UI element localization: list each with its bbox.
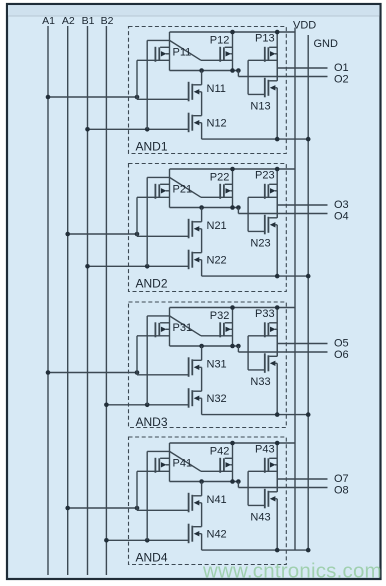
svg-text:N43: N43 (250, 512, 270, 524)
wire inverter output vertical AND2 (276, 191, 278, 218)
junction P12 source on node (230, 68, 235, 73)
wire P43 gate/source lead (248, 470, 277, 472)
transistor N33 (NMOS) (265, 353, 277, 373)
svg-text:O7: O7 (334, 473, 349, 485)
junction ground feed on GND rail (306, 412, 311, 417)
wire P42 gate/source lead (201, 470, 233, 472)
wire N31 source to N32 drain (201, 367, 203, 391)
AND4 dashed box (129, 437, 287, 565)
wire inverter gate vertical AND1 (247, 60, 249, 94)
wire inverter output vertical AND1 (276, 54, 278, 81)
wire N21 drain vertical (201, 208, 203, 222)
watermark www.cntronics.com (202, 560, 382, 583)
transistor P42 (PMOS) (220, 458, 232, 473)
wire node jog down (237, 208, 239, 214)
AND1 dashed box (129, 27, 287, 154)
transistor P11 (PMOS) (155, 47, 169, 62)
svg-text:P11: P11 (173, 46, 192, 58)
junction A tap on input line (65, 506, 70, 511)
wire N42 source to ground (201, 534, 203, 550)
junction P12 drain on VDD feed (230, 30, 235, 35)
svg-text:B1: B1 (82, 15, 95, 27)
transistor N41 (NMOS) (189, 493, 202, 513)
junction B tap on input line (85, 127, 90, 132)
wire N31 gate lead (137, 374, 189, 376)
svg-text:P12: P12 (210, 34, 230, 46)
VDD rail (294, 28, 296, 551)
wire B diagonal to P42 gate (170, 451, 202, 471)
wire VDD feed AND3 (170, 307, 296, 309)
wire node jog down (237, 482, 239, 488)
svg-text:AND2: AND2 (136, 277, 168, 291)
wire VDD feed AND4 (170, 442, 296, 444)
junction P42 source on node (230, 479, 235, 484)
svg-text:P13: P13 (255, 32, 275, 44)
wire N12 source to ground (201, 123, 203, 139)
wire P22 drain/source vertical (232, 169, 234, 208)
junction B tap on riser (145, 264, 150, 269)
junction B tap on riser (145, 127, 150, 132)
transistor P32 (PMOS) (220, 322, 232, 337)
svg-text:N42: N42 (207, 528, 227, 540)
junction N41 drain on node (199, 479, 204, 484)
transistor P41 (PMOS) (155, 458, 169, 473)
svg-text:O1: O1 (334, 62, 349, 74)
wire VDD feed AND2 (170, 168, 296, 170)
svg-text:AND1: AND1 (136, 140, 168, 154)
junction node corner (236, 68, 241, 73)
svg-text:P21: P21 (173, 183, 193, 195)
wire P23 gate/source lead (248, 196, 277, 198)
wire input A tap AND2 (68, 233, 137, 235)
wire inverter gate vertical AND4 (247, 471, 249, 505)
header rule (8, 15, 380, 17)
wire P32 gate/source lead (201, 335, 233, 337)
svg-text:VDD: VDD (293, 20, 316, 32)
svg-text:N22: N22 (207, 254, 227, 266)
wire N11 drain vertical (201, 71, 203, 85)
svg-text:N32: N32 (207, 393, 227, 405)
wire B riser AND1 (146, 40, 148, 129)
transistor P12 (PMOS) (220, 47, 232, 62)
junction A tap on riser (135, 506, 140, 511)
wire input A tap AND3 (48, 372, 137, 374)
wire N11 gate lead (137, 98, 189, 100)
wire N13 gate lead (248, 93, 265, 95)
transistor P13 (PMOS) (265, 47, 277, 62)
junction P43 drain on VDD feed (275, 441, 280, 446)
junction node corner (236, 479, 241, 484)
wire NAND node AND2 (170, 207, 239, 209)
svg-text:GND: GND (314, 38, 339, 50)
svg-text:O4: O4 (334, 211, 349, 223)
wire B top run AND3 (147, 315, 169, 317)
wire input A tap AND4 (68, 507, 137, 509)
GND rail (307, 35, 309, 550)
svg-text:AND4: AND4 (136, 551, 168, 565)
wire N33 gate lead (248, 369, 265, 371)
wire P13 gate/source lead (248, 59, 277, 61)
junction A tap on input line (46, 370, 51, 375)
input line B2 (105, 26, 107, 575)
input line A1 (47, 26, 49, 575)
junction ground feed on GND rail (306, 137, 311, 142)
wire inverter output vertical AND3 (276, 329, 278, 356)
wire node jog down (237, 346, 239, 352)
wire P41 drain/source vertical (169, 443, 171, 482)
svg-text:AND3: AND3 (136, 415, 168, 429)
wire P21 gate/source lead (137, 196, 170, 198)
svg-text:N33: N33 (250, 376, 270, 388)
wire NAND node AND3 (170, 345, 239, 347)
junction B tap on riser (145, 403, 150, 408)
transistor P22 (PMOS) (220, 184, 232, 199)
junction A tap on input line (65, 232, 70, 237)
wire O5 line (AND output) (277, 343, 327, 345)
junction B tap on input line (104, 403, 109, 408)
wire P11 drain/source vertical (169, 32, 171, 71)
wire N23 gate lead (248, 230, 265, 232)
svg-text:N23: N23 (250, 238, 270, 250)
AND2 dashed box (129, 164, 287, 292)
junction ground feed on GND rail (306, 548, 311, 553)
wire P32 drain/source vertical (232, 308, 234, 347)
wire P22 gate/source lead (201, 196, 233, 198)
wire A riser AND1 (136, 60, 138, 99)
transistor N32 (NMOS) (189, 388, 202, 408)
wire B diagonal to P22 gate (170, 177, 202, 197)
wire N22 source to ground (201, 260, 203, 276)
svg-text:www.cntronics.com: www.cntronics.com (202, 560, 382, 583)
junction N33 source on ground feed (275, 412, 280, 417)
wire B top run AND2 (147, 176, 169, 178)
wire N43 gate lead (248, 504, 265, 506)
wire A riser AND4 (136, 471, 138, 510)
wire P13 drain vertical (276, 32, 278, 81)
wire O7 line (AND output) (277, 478, 327, 480)
wire N43 source to ground (276, 499, 278, 550)
transistor P31 (PMOS) (155, 322, 169, 337)
wire P12 gate/source lead (201, 59, 233, 61)
junction N13 source on ground feed (275, 137, 280, 142)
wire N21 gate lead (137, 235, 189, 237)
junction P33 drain on VDD feed (275, 305, 280, 310)
input line A2 (67, 26, 69, 575)
transistor N12 (NMOS) (189, 113, 202, 133)
transistor P43 (PMOS) (265, 458, 277, 473)
wire N11 source to N12 drain (201, 92, 203, 116)
panel header band (8, 5, 380, 16)
wire NAND node AND4 (170, 481, 239, 483)
svg-text:O3: O3 (334, 199, 349, 211)
svg-text:N21: N21 (207, 220, 227, 232)
wire inverter gate vertical AND3 (247, 336, 249, 370)
wire P12 drain/source vertical (232, 32, 234, 71)
wire N41 gate lead (137, 509, 189, 511)
svg-text:O8: O8 (334, 485, 349, 497)
wire P33 drain vertical (276, 308, 278, 357)
junction B tap on riser (145, 538, 150, 543)
transistor N21 (NMOS) (189, 219, 202, 239)
wire P33 gate/source lead (248, 335, 277, 337)
transistor P21 (PMOS) (155, 184, 169, 199)
junction P23 drain on VDD feed (275, 167, 280, 172)
svg-text:N13: N13 (250, 101, 270, 113)
transistor N22 (NMOS) (189, 250, 202, 270)
wire ground feed AND3 (202, 414, 309, 416)
transistor N11 (NMOS) (189, 82, 202, 102)
wire input A tap AND1 (48, 96, 137, 98)
wire N41 source to N42 drain (201, 503, 203, 527)
svg-text:A1: A1 (42, 15, 55, 27)
wire NAND node AND1 (170, 70, 239, 72)
transistor N31 (NMOS) (189, 357, 202, 377)
wire input B tap / N12 gate lead (88, 128, 189, 130)
wire A riser AND3 (136, 336, 138, 375)
wire P11 gate/source lead (137, 59, 170, 61)
transistor P33 (PMOS) (265, 322, 277, 337)
svg-text:A2: A2 (62, 15, 75, 27)
wire N21 source to N22 drain (201, 229, 203, 253)
wire inverter output vertical AND4 (276, 465, 278, 492)
junction N23 source on ground feed (275, 274, 280, 279)
junction N43 source on ground feed (275, 548, 280, 553)
wire N31 drain vertical (201, 346, 203, 360)
wire N32 source to ground (201, 398, 203, 414)
junction A tap on input line (46, 95, 51, 100)
wire ground feed AND2 (202, 275, 309, 277)
wire P31 gate/source lead (137, 335, 170, 337)
AND3 dashed box (129, 302, 287, 428)
svg-text:O6: O6 (334, 349, 349, 361)
junction ground feed on GND rail (306, 274, 311, 279)
wire VDD feed AND1 (170, 31, 296, 33)
input line B1 (87, 26, 89, 575)
svg-text:B2: B2 (101, 15, 114, 27)
wire P23 drain vertical (276, 169, 278, 218)
wire input B tap / N42 gate lead (106, 539, 188, 541)
wire P42 drain/source vertical (232, 443, 234, 482)
wire O3 line (AND output) (277, 204, 327, 206)
svg-text:P33: P33 (255, 308, 275, 320)
wire B riser AND4 (146, 451, 148, 540)
wire A riser AND2 (136, 197, 138, 236)
wire N13 source to ground (276, 88, 278, 139)
wire inverter gate vertical AND2 (247, 197, 249, 231)
junction node corner (236, 205, 241, 210)
junction B tap on input line (104, 538, 109, 543)
svg-text:P41: P41 (173, 457, 193, 469)
svg-text:N11: N11 (207, 83, 226, 95)
junction B tap on input line (85, 264, 90, 269)
junction N31 drain on node (199, 344, 204, 349)
junction N11 drain on node (199, 68, 204, 73)
svg-text:N31: N31 (207, 359, 227, 371)
svg-text:P32: P32 (210, 310, 230, 322)
transistor N13 (NMOS) (265, 78, 277, 98)
wire P41 gate/source lead (137, 470, 170, 472)
wire O2 line (NAND output) (238, 76, 327, 78)
wire B diagonal to P12 gate (170, 40, 202, 60)
transistor N23 (NMOS) (265, 215, 277, 235)
wire node jog down (237, 71, 239, 77)
wire input B tap / N32 gate lead (106, 404, 188, 406)
transistor N42 (NMOS) (189, 524, 202, 544)
wire B top run AND4 (147, 450, 169, 452)
wire O6 line (NAND output) (238, 351, 327, 353)
wire input B tap / N22 gate lead (88, 265, 189, 267)
svg-text:P22: P22 (210, 171, 230, 183)
wire B riser AND2 (146, 177, 148, 266)
junction P32 source on node (230, 344, 235, 349)
wire N41 drain vertical (201, 482, 203, 496)
wire P31 drain/source vertical (169, 308, 171, 347)
junction P22 drain on VDD feed (230, 167, 235, 172)
junction P42 drain on VDD feed (230, 441, 235, 446)
junction node corner (236, 344, 241, 349)
junction P22 source on node (230, 205, 235, 210)
wire ground feed AND4 (202, 549, 309, 551)
wire B top run AND1 (147, 39, 169, 41)
transistor N43 (NMOS) (265, 489, 277, 509)
svg-text:P23: P23 (255, 169, 275, 181)
junction N21 drain on node (199, 205, 204, 210)
junction P13 drain on VDD feed (275, 30, 280, 35)
wire N33 source to ground (276, 363, 278, 414)
svg-text:P43: P43 (255, 443, 275, 455)
wire O1 line (AND output) (277, 67, 327, 69)
wire B riser AND3 (146, 316, 148, 405)
svg-text:P42: P42 (210, 445, 230, 457)
svg-text:N12: N12 (207, 117, 227, 129)
svg-text:P31: P31 (173, 322, 193, 334)
wire B diagonal to P32 gate (170, 316, 202, 336)
wire N23 source to ground (276, 225, 278, 276)
junction P32 drain on VDD feed (230, 305, 235, 310)
wire O4 line (NAND output) (238, 213, 327, 215)
wire O8 line (NAND output) (238, 487, 327, 489)
wire P21 drain/source vertical (169, 169, 171, 208)
junction A tap on riser (135, 370, 140, 375)
svg-text:N41: N41 (207, 494, 227, 506)
wire ground feed AND1 (202, 138, 309, 140)
junction A tap on riser (135, 232, 140, 237)
junction A tap on riser (135, 95, 140, 100)
svg-text:O2: O2 (334, 74, 349, 86)
transistor P23 (PMOS) (265, 184, 277, 199)
svg-text:O5: O5 (334, 337, 349, 349)
wire P43 drain vertical (276, 443, 278, 492)
